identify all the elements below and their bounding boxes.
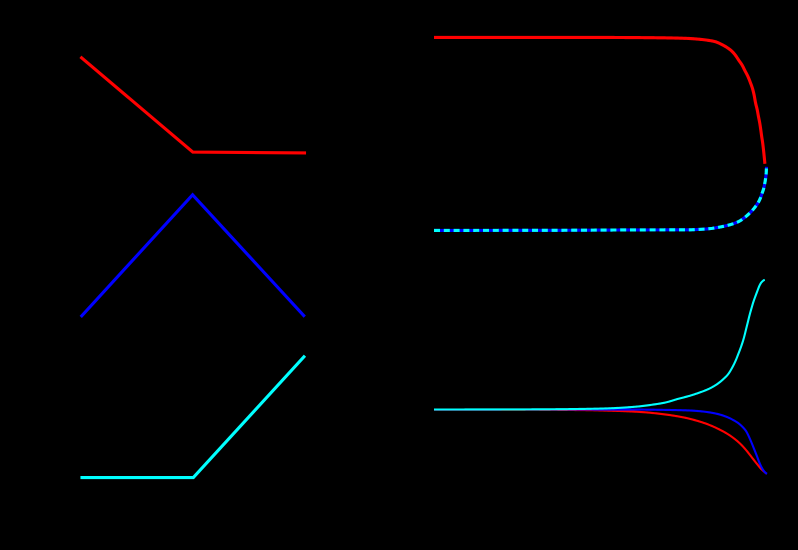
right top panel: red upper eigenvalue curve: [434, 37, 765, 163]
right bottom panel: blue declining curve: [434, 410, 767, 474]
left panel: red diabatic energy line (descending then flat): [82, 58, 305, 153]
left panel: cyan diabatic energy line (flat then rising): [82, 357, 304, 478]
right top panel: cyan dashed overlay on lower eigenvalue curve: [434, 167, 767, 231]
right top panel: blue lower eigenvalue curve (solid, under dashes): [434, 167, 767, 231]
right bottom panel: red declining curve: [434, 410, 766, 474]
right bottom panel: cyan rising curve: [434, 280, 765, 410]
left panel: blue diabatic energy line (triangle peak): [82, 195, 304, 316]
